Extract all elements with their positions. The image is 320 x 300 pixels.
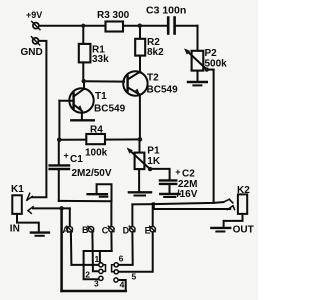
- svg-text:E: E: [145, 226, 151, 236]
- svg-text:+: +: [175, 167, 180, 177]
- svg-text:2M2/50V: 2M2/50V: [72, 168, 112, 179]
- svg-text:2: 2: [85, 270, 90, 280]
- svg-text:OUT: OUT: [233, 224, 254, 235]
- svg-text:BC549: BC549: [94, 104, 126, 115]
- svg-text:K2: K2: [237, 185, 250, 196]
- svg-text:A: A: [62, 225, 69, 235]
- svg-text:R4: R4: [90, 125, 103, 136]
- svg-text:6: 6: [119, 254, 124, 264]
- svg-text:C2: C2: [182, 169, 195, 180]
- svg-text:R3 300: R3 300: [97, 10, 130, 21]
- svg-text:100k: 100k: [85, 148, 108, 159]
- svg-text:P1: P1: [147, 145, 160, 156]
- svg-text:K1: K1: [11, 184, 24, 195]
- svg-text:33k: 33k: [92, 54, 109, 65]
- svg-text:5: 5: [132, 271, 137, 281]
- svg-text:T1: T1: [95, 91, 107, 102]
- svg-text:500k: 500k: [205, 59, 228, 70]
- svg-text:4: 4: [120, 280, 125, 290]
- svg-text:/16V: /16V: [177, 189, 198, 200]
- svg-text:C3 100n: C3 100n: [146, 5, 186, 17]
- svg-text:+: +: [64, 151, 69, 161]
- svg-text:1: 1: [95, 254, 100, 264]
- svg-text:C1: C1: [70, 154, 83, 165]
- svg-text:8k2: 8k2: [147, 47, 164, 58]
- svg-text:C: C: [102, 226, 109, 236]
- svg-text:1K: 1K: [147, 156, 161, 167]
- svg-text:+9V: +9V: [26, 10, 42, 20]
- svg-text:P2: P2: [205, 48, 218, 59]
- svg-text:T2: T2: [147, 73, 159, 84]
- svg-text:BC549: BC549: [147, 85, 179, 96]
- svg-text:B: B: [82, 225, 89, 235]
- svg-text:GND: GND: [21, 47, 43, 58]
- svg-text:D: D: [123, 226, 130, 236]
- svg-text:3: 3: [94, 279, 99, 289]
- svg-text:IN: IN: [10, 224, 20, 235]
